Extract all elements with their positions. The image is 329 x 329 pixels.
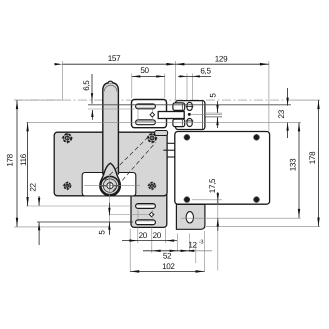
cylinder key slot bar bbox=[101, 185, 119, 187]
bottom plate slot upper bbox=[136, 204, 156, 209]
svg-text:102: 102 bbox=[162, 262, 175, 271]
cylinder key cross circle bbox=[107, 183, 113, 189]
top plate slot upper bbox=[136, 104, 156, 109]
vertical extension x=195.8 (12 right) bbox=[195, 244, 197, 263]
enclosure screw symbols bbox=[184, 134, 260, 202]
vertical extension x=131.8 (50 left) bbox=[131, 74, 133, 99]
cylinder centerline vertical bbox=[108, 174, 110, 235]
dim 17,5 (vertical) bbox=[217, 192, 219, 231]
dim 133 (vertical right) bbox=[298, 122, 300, 217]
svg-text:22: 22 bbox=[29, 183, 38, 192]
latch bar bbox=[158, 112, 184, 119]
dim 12-3 bbox=[170, 250, 212, 252]
cylinder centerline horizontal bbox=[84, 184, 140, 186]
top plate slot lower bbox=[136, 120, 156, 125]
svg-text:133: 133 bbox=[288, 158, 297, 171]
dim 5 bottom (vertical) bbox=[108, 203, 110, 235]
extension line: hole center y=122.4 bbox=[27, 121, 302, 123]
extension line: bottom slot2 center y=222 bbox=[37, 221, 133, 223]
bottom strike plate bbox=[131, 190, 167, 227]
keeper tab bottom bbox=[173, 119, 185, 127]
dim 6,5 left (vertical) bbox=[91, 74, 94, 120]
lever handle bbox=[103, 83, 119, 175]
lock cylinder circles bbox=[101, 176, 119, 194]
svg-text:157: 157 bbox=[108, 54, 121, 63]
keeper stadium slot top bbox=[187, 102, 192, 110]
dim 6,5 top bbox=[178, 75, 211, 77]
vertical extension x=175.4 (frame) bbox=[174, 61, 176, 100]
svg-text:6,5: 6,5 bbox=[82, 80, 91, 91]
dim 5 right (vertical) bbox=[216, 101, 218, 128]
dashed rod line 1 bbox=[105, 136, 149, 180]
dim 20|20 bottom bbox=[122, 239, 177, 241]
plate screw top-left bbox=[62, 132, 73, 143]
dim 50 bbox=[132, 75, 165, 77]
extension line: screw line y=199.8 bbox=[192, 199, 222, 201]
cylinder recess (white notch) bbox=[82, 173, 136, 196]
svg-text:52: 52 bbox=[163, 252, 172, 261]
dashed rod line 2 bbox=[113, 143, 156, 192]
dim 102 bbox=[130, 270, 204, 273]
svg-text:20: 20 bbox=[153, 231, 162, 240]
inner verticals between slots bbox=[137, 110, 139, 121]
keeper stadium slot bottom bbox=[187, 119, 192, 127]
dim 178 left (vertical) bbox=[16, 100, 18, 227]
enclosure box right bbox=[175, 132, 270, 205]
diamond line y=215.4 bbox=[109, 214, 149, 216]
bottom plate diamond bbox=[149, 212, 154, 217]
vertical extension x=187 (6,5 top left) bbox=[186, 74, 188, 101]
bottom slots inner lines bbox=[137, 204, 155, 206]
bottom right bracket with oval bbox=[176, 204, 205, 229]
dim 178 right (vertical) bbox=[317, 100, 319, 226]
plate screw bottom-right bbox=[147, 181, 156, 190]
centerline horizontal top (dash-dot) bbox=[14, 99, 292, 101]
svg-text:6,5: 6,5 bbox=[200, 66, 211, 75]
keeper tab fold lines bbox=[181, 104, 183, 110]
svg-text:50: 50 bbox=[140, 66, 149, 75]
top strike plate bbox=[132, 100, 167, 128]
svg-text:-3: -3 bbox=[199, 240, 204, 246]
extension line: oval center y=218.2 bbox=[181, 217, 301, 219]
bottom plate inner verticals bbox=[137, 210, 139, 219]
extension line: slot top edge (6,5) bbox=[88, 104, 291, 106]
top right keeper bracket bbox=[176, 101, 205, 130]
extension line: slot bottom edge bbox=[88, 108, 135, 110]
bottom plate slot lower bbox=[136, 220, 156, 225]
svg-text:20: 20 bbox=[139, 231, 148, 240]
svg-text:178: 178 bbox=[6, 153, 15, 166]
vertical extension x=62.5 (157 left) bbox=[62, 61, 64, 100]
big left plate bbox=[54, 132, 167, 196]
svg-text:17,5: 17,5 bbox=[208, 178, 217, 193]
svg-text:178: 178 bbox=[308, 151, 317, 164]
vertical line x=217.8 tail bbox=[217, 196, 219, 271]
dim 116 (vertical left) bbox=[26, 122, 28, 206]
vertical extension x=130.2 (102 left) bbox=[129, 229, 131, 273]
svg-text:129: 129 bbox=[215, 55, 228, 64]
dim 23 (vertical right) bbox=[286, 88, 288, 138]
lever dome inner arc bbox=[104, 85, 117, 91]
vertical extensions bottom 20|20 bbox=[137, 226, 139, 244]
dim 129 bbox=[175, 63, 269, 66]
vertical extension x=268.9 (129 right) bbox=[268, 61, 270, 131]
top plate diamond bbox=[150, 112, 155, 117]
extension y=100 left bbox=[16, 99, 63, 101]
extension line: bottom y=226.6 right bbox=[206, 226, 320, 228]
vertical extension x=164.8 (50 right) bbox=[164, 74, 166, 99]
svg-text:23: 23 bbox=[277, 109, 286, 118]
extension line: bottom slot center y=206.4 bbox=[27, 205, 134, 207]
oval hole bbox=[186, 212, 193, 223]
extension line: bar inner top right of bracket bbox=[205, 112, 222, 114]
dim 157 bbox=[55, 63, 176, 66]
keeper inner right fold line bbox=[201, 101, 203, 129]
plate screw top-right bbox=[146, 132, 157, 143]
plate top bump bbox=[155, 131, 168, 136]
top slots inner lines bbox=[137, 106, 155, 108]
dim 52 bbox=[143, 250, 189, 252]
keeper stadium screw marks bbox=[186, 105, 194, 107]
rod link ladder between plate and enclosure bbox=[167, 142, 174, 144]
keeper tab top bbox=[173, 103, 185, 111]
svg-text:116: 116 bbox=[19, 153, 28, 166]
lever teardrop pointed egg bbox=[100, 163, 121, 196]
plate screw bottom-left bbox=[63, 181, 72, 190]
vertical extension x=192.3 (6,5 top right) bbox=[191, 74, 193, 101]
svg-text:12: 12 bbox=[188, 241, 197, 250]
extension line: bar inner bottom bbox=[205, 116, 222, 118]
extension line y=100 right for 178 bbox=[292, 99, 320, 101]
keeper small dot bbox=[188, 113, 191, 116]
lever top tab bbox=[108, 81, 112, 83]
vertical extension x=204.5 (102 right) bbox=[204, 231, 206, 272]
gray line from keeper dot bbox=[191, 113, 222, 115]
extension line: bottom y=226.8 left bbox=[14, 226, 110, 228]
dim 22 (vertical left) bbox=[38, 196, 40, 245]
